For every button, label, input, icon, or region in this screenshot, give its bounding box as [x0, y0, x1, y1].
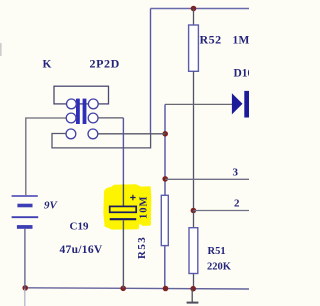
- diode D10 cathode bar: [244, 91, 249, 118]
- relay K coil loop circle row1 left: [67, 99, 77, 109]
- svg-text:C19: C19: [70, 221, 89, 233]
- wire: R51 top lead: [193, 211, 195, 228]
- svg-text:10M: 10M: [138, 196, 149, 219]
- wire: top rail: [151, 8, 250, 10]
- svg-text:R53: R53: [136, 236, 148, 259]
- relay K contact circle row3 left: [66, 129, 76, 139]
- svg-text:220K: 220K: [207, 262, 232, 273]
- relay K coil loop circle row2 right: [88, 113, 98, 123]
- wire: R52 top lead: [193, 9, 195, 26]
- wire: vertical net from diode corner down through junctions to R53: [164, 104, 166, 195]
- svg-text:9V: 9V: [44, 200, 59, 212]
- capacitor 10M positive plate: [110, 206, 137, 212]
- relay K coil core bar right: [83, 99, 87, 124]
- wire: pin 2 line: [193, 210, 249, 212]
- ground bar: [187, 302, 199, 304]
- svg-text:1M: 1M: [233, 35, 250, 47]
- wire: R52 bottom lead down to pin2 junction: [193, 71, 195, 210]
- wire: capacitor top lead: [122, 118, 124, 184]
- battery 9V plate 1 (long): [12, 195, 38, 197]
- svg-text:47u/16V: 47u/16V: [60, 244, 103, 256]
- wire: diode anode wire: [165, 103, 232, 105]
- relay K coil loop circle row1 right: [88, 99, 98, 109]
- junction dot at top rail / R52: [191, 6, 197, 12]
- relay K coil core bar left: [76, 99, 80, 124]
- wire: battery bottom lead: [24, 229, 26, 288]
- wire: capacitor bottom lead: [122, 220, 124, 288]
- svg-text:2P2D: 2P2D: [90, 57, 120, 71]
- wire stub at left edge: [0, 43, 2, 56]
- junction dot: pin 2 branch: [191, 208, 197, 214]
- diode D10 triangle: [232, 93, 243, 114]
- resistor R51 body: [189, 228, 198, 274]
- wire: relay row-3 contact to vertical net: [98, 133, 166, 135]
- resistor R53 body: [161, 195, 168, 245]
- battery 9V plate 3 (long): [12, 216, 39, 218]
- wire: relay row-2 contact to capacitor (horizontal): [97, 117, 123, 119]
- battery 9V plate 2 (short thick): [17, 204, 32, 208]
- junction dot: capacitor to bottom rail: [120, 286, 126, 292]
- resistor R52 body: [189, 25, 199, 71]
- highlight marker over capacitor 10M: [103, 184, 151, 229]
- svg-text:K: K: [43, 59, 52, 71]
- ground stub: [191, 289, 193, 302]
- relay K coil loop circle row2 left: [66, 113, 76, 123]
- junction dot: pin 3 branch: [162, 176, 168, 182]
- svg-text:R51: R51: [208, 246, 226, 257]
- svg-text:D10: D10: [234, 68, 250, 80]
- svg-text:2: 2: [234, 198, 240, 210]
- wire: capacitor top lead (inside highlight): [122, 184, 124, 206]
- wire: bottom rail: [25, 288, 249, 289]
- relay K top contact box: [54, 86, 109, 104]
- wire: pin 3 line: [165, 178, 249, 180]
- svg-text:3: 3: [233, 167, 239, 179]
- wire: faint battery lead continuation below rail: [24, 289, 26, 306]
- relay K contact circle row3 right: [88, 129, 98, 139]
- junction dot: R51/ground to bottom rail: [190, 286, 196, 292]
- wire: R53 bottom lead: [164, 246, 166, 289]
- svg-text:R52: R52: [200, 33, 222, 47]
- wire: vertical from top rail corner down to relay contact wire: [150, 9, 152, 135]
- wire: R51 bottom lead: [193, 274, 195, 289]
- wire: relay row-2 left contact wire and down to battery: [26, 118, 66, 195]
- capacitor plus sign: [130, 195, 135, 201]
- junction dot: relay contact wire joins vertical net: [162, 131, 168, 137]
- capacitor 10M negative plate: [110, 218, 137, 220]
- junction dot: R53 to bottom rail: [163, 286, 169, 292]
- junction dot: battery to bottom rail: [22, 285, 28, 291]
- relay K contact bracket: [52, 134, 151, 148]
- battery 9V plate 4 (short thick): [17, 225, 33, 229]
